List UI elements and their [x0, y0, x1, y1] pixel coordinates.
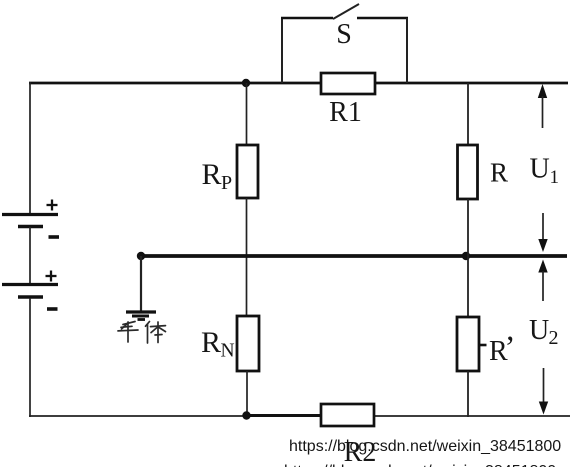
wire bottom thick segment (node to R2) [246, 414, 322, 417]
wire switch branch left vertical [281, 18, 283, 83]
svg-text:P: P [221, 172, 232, 194]
wire right vertical middle [467, 199, 469, 318]
svg-text:N: N [221, 341, 235, 362]
wire between battery cells [29, 227, 31, 285]
wire below RN [246, 371, 248, 416]
resistor R' [457, 317, 479, 371]
svg-text:R: R [202, 158, 222, 191]
wire left vertical lower [29, 298, 31, 417]
svg-text:R: R [201, 326, 221, 359]
resistor R1 [321, 73, 375, 94]
node dot bottom junction [242, 411, 250, 419]
ground stem wire [140, 256, 142, 311]
svg-text:R1: R1 [329, 97, 362, 128]
arrow U2 up (points to middle bus) [538, 260, 547, 302]
switch S blade [333, 4, 359, 19]
node dot ground junction [137, 252, 145, 260]
svg-text:’: ’ [505, 330, 516, 366]
label + (cell 1) [47, 200, 58, 211]
svg-text:https://blog.csdn.net/weixin_3: https://blog.csdn.net/weixin_38451800 [284, 463, 556, 467]
svg-text:U: U [530, 154, 550, 185]
arrow U1 up (points to top bus) [538, 84, 547, 128]
battery cell 2 short plate (-) [18, 295, 43, 299]
middle thick bus [141, 254, 567, 258]
svg-text:S: S [336, 19, 352, 50]
resistor RP [237, 145, 258, 198]
battery cell 2 long plate (+) [2, 283, 58, 286]
wire switch branch top-left segment [281, 17, 333, 20]
wire RP branch upper [246, 83, 248, 146]
arrow U1 down (points to middle bus) [538, 213, 547, 252]
ground bar 3 [138, 318, 146, 321]
svg-text:U: U [529, 315, 549, 346]
battery cell 1 short plate (-) [18, 225, 43, 229]
node dot top junction [242, 79, 250, 87]
wire switch branch top-right segment [357, 17, 408, 20]
wire RP to RN (crosses middle bus) [246, 198, 248, 317]
wire switch branch right vertical [406, 18, 408, 83]
battery cell 1 long plate (+) [2, 213, 58, 216]
svg-text:2: 2 [549, 327, 559, 349]
label - (cell 1) [49, 235, 60, 239]
wire right vertical top [467, 83, 469, 146]
label + (cell 2) [46, 271, 57, 282]
ground bar 2 [132, 315, 149, 318]
svg-text:https://blog.csdn.net/weixin_3: https://blog.csdn.net/weixin_38451800 [289, 438, 561, 455]
resistor R [458, 145, 478, 199]
resistor RN [237, 316, 259, 371]
resistor R2 [321, 404, 374, 426]
R' wiper tick [479, 344, 487, 347]
label - (cell 2) [47, 307, 58, 311]
svg-text:1: 1 [550, 167, 560, 188]
ground bar 1 [126, 310, 156, 313]
wire below R' [467, 371, 469, 417]
svg-text:R: R [490, 158, 508, 188]
label 车体 (vehicle body) [118, 322, 166, 344]
node dot middle-right junction [462, 252, 470, 260]
wire left vertical upper (battery branch) [29, 82, 31, 215]
wire bottom horizontal bus [29, 415, 570, 417]
arrow U2 down (points to bottom bus) [539, 368, 548, 415]
wire top horizontal bus [29, 82, 568, 85]
